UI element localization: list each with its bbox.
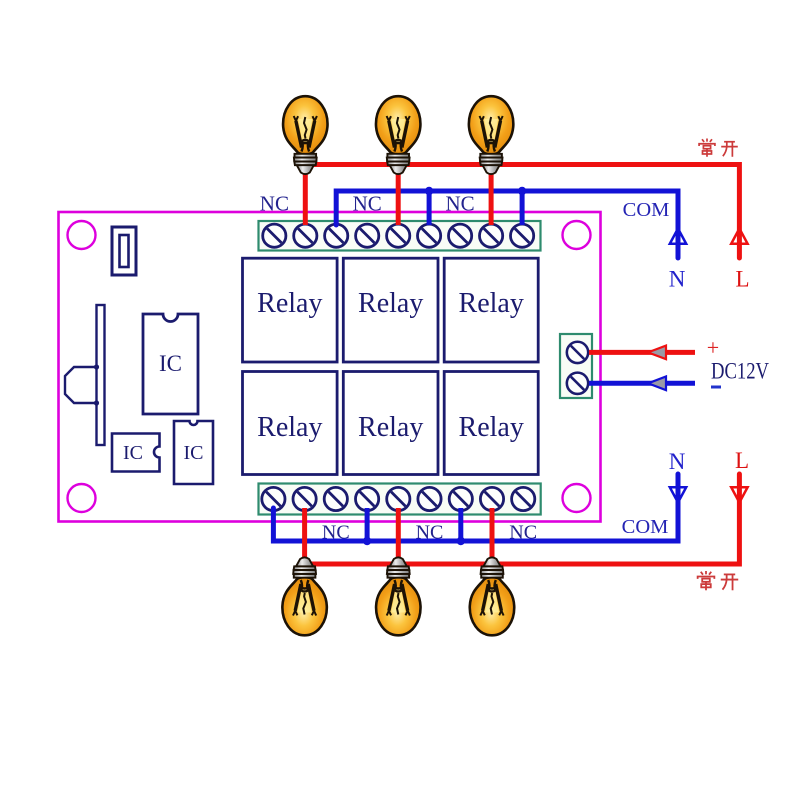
relay K5	[343, 372, 438, 475]
svg-text:DC12V: DC12V	[711, 359, 769, 384]
wire: bottom blue COM bus	[273, 474, 678, 541]
terminal strip TB1 (top)	[259, 221, 541, 251]
svg-text:Relay: Relay	[257, 288, 322, 319]
antenna connector plug	[65, 367, 97, 403]
junction dot bottom bus at TB2-4	[363, 537, 371, 545]
terminal strip TB2 (bottom)	[259, 484, 541, 515]
wire: red drop TB2-8 to lamp6	[490, 508, 495, 560]
lamp L4	[282, 557, 326, 635]
IC U2	[112, 434, 160, 472]
label - (DC12V)	[711, 386, 721, 389]
junction dot plug bottom	[94, 400, 99, 405]
arrow DC plus	[648, 346, 666, 360]
svg-text:Relay: Relay	[459, 412, 524, 443]
arrow DC minus	[648, 377, 666, 391]
svg-text:NC: NC	[322, 522, 350, 544]
junction dot plug top	[94, 364, 99, 369]
wire: red drop lamp1 to TB1-2	[303, 165, 308, 226]
arrow L (top)	[731, 229, 747, 244]
wire: DC12V plus (red)	[589, 350, 695, 355]
svg-text:Relay: Relay	[358, 288, 423, 319]
mounting hole bottom-right	[563, 484, 591, 512]
mounting hole bottom-left	[68, 484, 96, 512]
wire: red drop lamp2 to TB1-5	[396, 165, 401, 226]
lamp L3	[469, 96, 513, 174]
svg-text:+: +	[707, 335, 719, 360]
label 常开 (bottom)	[698, 571, 715, 590]
relay K1	[243, 258, 338, 362]
lamp L1	[283, 96, 327, 174]
IC U1	[143, 314, 198, 414]
svg-text:N: N	[669, 449, 686, 474]
svg-text:N: N	[669, 267, 686, 292]
wire: red drop lamp3 to TB1-8	[489, 165, 494, 226]
mounting hole top-right	[563, 221, 591, 249]
wire: red drop TB2-5 to lamp5	[396, 508, 401, 560]
svg-text:L: L	[735, 448, 749, 473]
lamp L5	[376, 557, 420, 635]
svg-text:NC: NC	[446, 192, 475, 216]
terminal block TB3 (DC12V)	[560, 334, 592, 398]
pushbutton S1	[112, 227, 136, 275]
svg-text:IC: IC	[159, 351, 182, 376]
wire: blue stub to TB2-4	[365, 508, 370, 541]
wire: blue stub to TB1-6	[427, 191, 432, 225]
svg-text:COM: COM	[622, 516, 669, 538]
svg-text:IC: IC	[123, 442, 143, 464]
IC U3	[174, 421, 213, 484]
wire: top blue COM bus	[336, 191, 678, 258]
svg-text:Relay: Relay	[358, 412, 423, 443]
svg-text:IC: IC	[184, 442, 204, 464]
svg-text:Relay: Relay	[257, 412, 322, 443]
junction dot top bus at TB1-6	[425, 187, 433, 195]
label 常开 (top)	[699, 139, 715, 157]
relay K6	[444, 372, 538, 475]
svg-text:L: L	[735, 267, 749, 292]
wire: blue stub to TB2-7	[458, 508, 463, 541]
wire: red drop TB2-2 to lamp4	[302, 508, 307, 560]
svg-text:NC: NC	[353, 192, 382, 216]
relay K2	[343, 258, 438, 362]
wire: DC12V minus (blue)	[589, 381, 695, 386]
relay K3	[444, 258, 538, 362]
arrow N (top)	[670, 229, 686, 244]
arrow N (bottom)	[670, 487, 686, 502]
arrow L (bottom)	[731, 487, 747, 502]
svg-text:NC: NC	[260, 192, 289, 216]
wire: top red L bus	[304, 165, 739, 259]
PCB board outline	[59, 212, 601, 522]
svg-text:NC: NC	[416, 522, 444, 544]
junction dot bottom bus at TB2-7	[457, 537, 465, 545]
svg-text:Relay: Relay	[459, 288, 524, 319]
junction dot top bus at TB1-9	[518, 187, 526, 195]
edge connector / antenna bar	[97, 305, 105, 445]
mounting hole top-left	[68, 221, 96, 249]
wire: blue stub to TB1-9	[520, 191, 525, 225]
relay K4	[243, 372, 338, 475]
svg-text:NC: NC	[509, 522, 537, 544]
lamp L2	[376, 96, 420, 174]
wire: bottom red L bus	[304, 474, 739, 564]
lamp L6	[470, 557, 514, 635]
svg-text:COM: COM	[623, 199, 670, 221]
